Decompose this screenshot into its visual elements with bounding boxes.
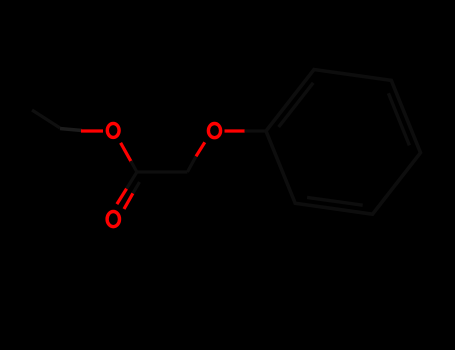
bond C2-O2 red half: [196, 142, 205, 156]
bond C2-O2 dark half: [187, 156, 196, 172]
bond CH2-O1 left gray half: [60, 129, 82, 131]
aromatic inner line edge V1V2: [279, 83, 314, 127]
double bond C1=O3 inner line red half: [124, 193, 133, 209]
bond CH2-O1 red half: [81, 129, 103, 132]
atom O2 ether oxygen label: [208, 124, 220, 138]
bond O2-ring red half: [225, 129, 246, 132]
aromatic inner line edge V3V4: [388, 93, 409, 145]
benzene ring outline faint: [266, 70, 421, 215]
bond O1-C1 dark half: [131, 161, 137, 172]
bond CH3-CH2 (ethyl diagonal, faint): [32, 110, 60, 128]
bond O1-C1 red half: [121, 143, 132, 163]
bond O2-ring dark half: [245, 129, 267, 132]
atom O3 carbonyl oxygen label: [107, 212, 119, 227]
double bond C1=O3 outer line dark half: [127, 172, 137, 189]
bond C1-C2 dark: [137, 170, 188, 173]
double bond C1=O3 outer line red half: [117, 189, 127, 205]
atom O1 ester oxygen label: [107, 123, 119, 137]
aromatic inner line edge V5V6: [307, 197, 363, 205]
double bond C1=O3 inner line dark half: [133, 182, 140, 193]
